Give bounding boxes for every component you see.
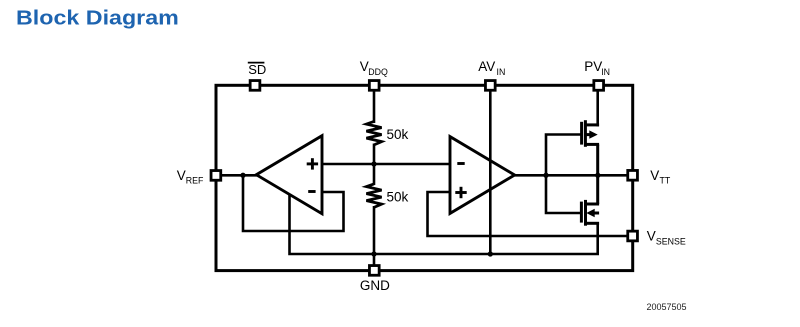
block outline xyxy=(216,85,633,270)
node VTT output junction xyxy=(595,173,600,178)
pin label VDDQ xyxy=(360,59,388,77)
pin label SD with overline xyxy=(248,62,266,77)
wire U2 non-inverting loop to VSENSE xyxy=(428,192,631,236)
svg-text:Block Diagram: Block Diagram xyxy=(16,6,179,29)
pin pad PVIN xyxy=(594,81,604,91)
wire divider midpoint to amplifier inputs xyxy=(321,163,452,166)
svg-text:SD: SD xyxy=(248,62,266,77)
U1 non-inverting input marker + xyxy=(307,158,318,169)
Q1 arrow xyxy=(589,130,597,138)
svg-text:SENSE: SENSE xyxy=(656,237,686,247)
svg-text:20057505: 20057505 xyxy=(647,302,687,312)
wire U2 output to VTT pad xyxy=(513,174,630,177)
svg-text:AV: AV xyxy=(478,59,495,74)
wire R1 to divider midpoint xyxy=(373,144,376,166)
Q2 arrow xyxy=(586,209,594,217)
pin label AVIN xyxy=(478,59,505,77)
svg-text:GND: GND xyxy=(360,278,390,293)
pin pad VDDQ xyxy=(369,81,379,91)
svg-text:V: V xyxy=(647,228,656,243)
pin label PVIN xyxy=(584,59,610,77)
pin pad VSENSE xyxy=(628,231,638,241)
wire VREF pad to U1 output xyxy=(214,174,258,177)
wire AVIN pad down through U2 to ground rail xyxy=(489,90,492,254)
U2 inverting input marker - xyxy=(457,162,464,165)
pin pad GND xyxy=(369,266,379,276)
svg-text:IN: IN xyxy=(601,67,610,77)
svg-text:PV: PV xyxy=(584,59,602,74)
wire VDDQ pad to resistor R1 xyxy=(373,90,376,123)
wire R2 to ground rail xyxy=(373,206,376,254)
svg-text:V: V xyxy=(177,168,186,183)
node divider midpoint xyxy=(371,161,376,166)
resistor R2 xyxy=(366,184,381,208)
node gate bus junction xyxy=(543,173,548,178)
wire midpoint to resistor R2 xyxy=(373,164,376,185)
pin pad SD xyxy=(250,81,260,91)
op-amp U2 xyxy=(450,137,515,214)
svg-text:50k: 50k xyxy=(387,190,409,205)
svg-text:50k: 50k xyxy=(387,127,409,142)
U1 inverting input marker - xyxy=(308,190,315,193)
pin pad VTT xyxy=(628,170,638,180)
wire U1 inverting feedback loop xyxy=(243,175,344,231)
svg-text:REF: REF xyxy=(186,176,204,186)
pin label VREF xyxy=(177,168,204,186)
resistor R1 xyxy=(366,121,381,144)
wire ground rail to GND pad xyxy=(373,254,376,266)
pin pad AVIN xyxy=(485,81,495,91)
pin label VTT xyxy=(650,168,671,186)
svg-text:DDQ: DDQ xyxy=(368,67,388,77)
svg-text:TT: TT xyxy=(660,176,671,186)
wire U1 ground stub and ground rail and Q2 source xyxy=(290,195,598,254)
U2 non-inverting input marker + xyxy=(455,187,466,198)
transistor Q2 xyxy=(581,175,599,226)
pin label VSENSE xyxy=(647,228,686,246)
wire gate bus to Q1 and Q2 gates xyxy=(546,135,581,214)
node ground rail at divider xyxy=(371,251,376,256)
wire PVIN pad to Q1 drain xyxy=(596,90,599,126)
node AVIN at ground rail xyxy=(488,251,493,256)
svg-text:IN: IN xyxy=(497,67,506,77)
op-amp U1 xyxy=(256,136,322,214)
svg-text:V: V xyxy=(650,168,659,183)
transistor Q1 xyxy=(582,120,600,176)
node VREF output junction xyxy=(240,173,245,178)
pin pad VREF xyxy=(211,171,221,181)
